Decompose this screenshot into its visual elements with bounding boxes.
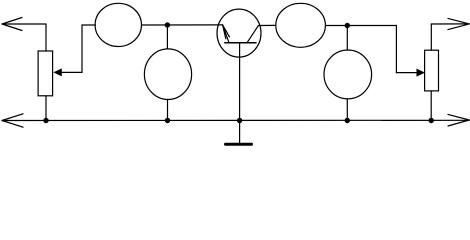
wire R1 bottom lead <box>45 96 47 121</box>
wire wiper R1 horizontal <box>61 71 83 73</box>
transistor Q1 emitter with arrow <box>223 25 230 43</box>
terminal arrow top-left <box>2 18 22 31</box>
wire node A down to G3 <box>166 25 168 49</box>
wire top-right horizontal <box>431 23 469 25</box>
terminal arrow top-right <box>448 18 469 29</box>
terminal arrow bottom-left <box>2 114 23 127</box>
transistor Q1 envelope <box>217 9 261 57</box>
wire right vertical to R2 wiper <box>395 26 397 73</box>
source G1 (circle) <box>95 3 141 46</box>
resistor R2 (right potentiometer body) <box>425 50 439 91</box>
wire wiper R1 to source G1 <box>82 24 96 26</box>
wire wiper R2 horizontal <box>396 72 417 74</box>
source G3 (circle) <box>144 49 191 100</box>
transistor Q1 base bar <box>225 42 256 44</box>
wire wiper R1 vertical <box>81 25 83 72</box>
terminal arrow bottom-right <box>448 114 469 126</box>
wiper arrowhead R1 <box>54 69 62 76</box>
wire down to R1 top <box>45 24 47 51</box>
node B (junction dot top-right) <box>345 23 350 28</box>
wire top-left horizontal <box>2 23 46 25</box>
wire G4 bottom lead <box>346 99 348 121</box>
node D (junction dot G3 bottom) <box>165 118 170 123</box>
node G (junction dot R2 bottom) <box>429 118 434 123</box>
wire G2 to right corner <box>326 25 397 27</box>
wire R2 top lead <box>430 24 432 50</box>
ground <box>226 143 252 146</box>
wire bottom rail <box>2 119 469 121</box>
node C (junction dot R1 bottom) <box>43 118 48 123</box>
wire R2 bottom lead <box>430 91 432 121</box>
wire Q1 collector to source G2 <box>258 24 275 26</box>
resistor R1 (left potentiometer body) <box>38 51 53 96</box>
wire G3 bottom lead <box>167 100 169 121</box>
wire node B down to G4 <box>346 26 348 51</box>
source G4 (circle) <box>324 50 372 99</box>
node F (junction dot G4 bottom) <box>345 118 350 123</box>
source G2 (circle) <box>276 3 326 47</box>
wire Q1 base lead down to ground <box>239 43 241 143</box>
node E (junction dot base/ground) <box>237 118 242 123</box>
wiper arrowhead R2 <box>417 69 425 76</box>
wire G1 to transistor emitter <box>142 24 223 26</box>
transistor Q1 collector <box>247 26 258 43</box>
node A (junction dot top-left) <box>165 22 170 27</box>
